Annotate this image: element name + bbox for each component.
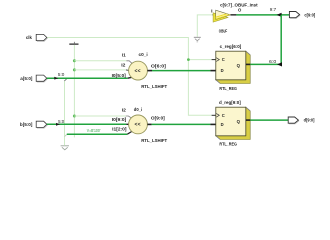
svg-text:6:0: 6:0 <box>269 59 277 64</box>
shifter c0_i body <box>129 61 148 80</box>
svg-text:c_reg[6:0]: c_reg[6:0] <box>220 44 242 50</box>
wire obuf input (gnd stub) <box>197 15 212 37</box>
pin stub d0_i I1 <box>127 132 131 135</box>
svg-text:c0_i: c0_i <box>139 52 148 58</box>
junction const / I1 c0_i <box>73 59 76 62</box>
wire bus vertical c <box>280 15 282 65</box>
register c_reg 3d side <box>216 51 250 83</box>
svg-text:I0[9:0]: I0[9:0] <box>112 117 127 122</box>
svg-text:I2: I2 <box>122 108 127 113</box>
pin stub c0_i I0 <box>128 76 132 79</box>
wire obuf O to junction <box>236 14 289 16</box>
svg-text:<<: << <box>134 68 140 74</box>
wire a bus <box>47 77 128 79</box>
wire d_reg Q stub <box>246 119 251 121</box>
svg-text:Q: Q <box>237 119 241 124</box>
register d_reg 3d side <box>216 107 250 139</box>
svg-text:c[9:0]: c[9:0] <box>304 13 315 18</box>
svg-text:5:0: 5:0 <box>58 119 65 124</box>
input port a[5:0] <box>37 79 48 82</box>
svg-text:Q: Q <box>237 63 241 68</box>
input port clk <box>37 38 48 41</box>
svg-text:d0_i: d0_i <box>134 107 142 113</box>
output port c[9:0] <box>290 15 300 18</box>
svg-text:d_reg[9:0]: d_reg[9:0] <box>219 100 241 106</box>
obuf hatch stripes <box>214 13 231 22</box>
register c_reg face <box>216 51 246 80</box>
svg-text:<<: << <box>134 122 140 128</box>
wire left const vertical <box>64 81 66 146</box>
wire b bus <box>47 123 127 125</box>
wire d0_i O to d_reg D <box>152 123 211 125</box>
pin stub c0_i I1 <box>126 61 133 65</box>
svg-text:9:7: 9:7 <box>270 7 277 12</box>
svg-text:RTL_REG: RTL_REG <box>219 142 237 148</box>
ground symbol near obuf <box>194 36 201 38</box>
svg-text:d[9:0]: d[9:0] <box>304 118 315 123</box>
svg-text:I0[5:0]: I0[5:0] <box>112 73 127 78</box>
svg-text:RTL_LSHIFT: RTL_LSHIFT <box>141 84 167 90</box>
wire c_reg Q to junction <box>250 63 281 65</box>
wire c0_i output stub <box>147 70 152 72</box>
svg-text:a[5:0]: a[5:0] <box>20 76 33 81</box>
register d_reg corner shadows <box>216 107 250 139</box>
breakout arrow b <box>56 123 60 126</box>
wire c0_i O to c_reg D <box>152 70 210 72</box>
svg-text:I1[2:0]: I1[2:0] <box>112 127 127 132</box>
pin stub c0_i I2 <box>126 69 129 72</box>
svg-text:I: I <box>211 8 212 13</box>
pin stub d_reg C <box>212 114 216 116</box>
pin stub c_reg C <box>212 59 216 61</box>
power bar symbol (const net) <box>73 42 75 44</box>
svg-text:b[5:0]: b[5:0] <box>20 122 33 127</box>
wire const vertical <box>73 45 75 137</box>
svg-text:RTL_REG: RTL_REG <box>219 86 237 92</box>
svg-text:c[9:7]_OBUF_inst: c[9:7]_OBUF_inst <box>220 2 258 8</box>
wire to shifter c0_i I1 <box>74 60 126 62</box>
wire clk net trunk <box>47 38 212 116</box>
junction const / I2 d0_i <box>73 115 76 118</box>
junction arrow corner <box>277 62 282 66</box>
input port b[5:0] <box>37 125 48 128</box>
svg-text:V=B'100': V=B'100' <box>87 128 101 133</box>
net tap tick on a wire <box>64 79 66 81</box>
obuf main triangle <box>216 10 231 19</box>
register c_reg corner shadows <box>216 51 250 83</box>
pin stub d0_i I2 <box>126 116 132 119</box>
wire c_reg Q stub <box>246 63 251 65</box>
pin stub c_reg D <box>210 70 216 72</box>
register d_reg face <box>216 107 246 136</box>
svg-text:clk: clk <box>26 35 32 40</box>
junction arrow top <box>277 13 282 17</box>
pin stub d0_i I0 <box>126 123 129 125</box>
svg-text:RTL_LSHIFT: RTL_LSHIFT <box>141 138 167 144</box>
wire clk branch to c_reg C <box>188 59 211 61</box>
svg-text:O[9:0]: O[9:0] <box>151 115 165 120</box>
svg-text:OBUF: OBUF <box>219 28 228 33</box>
wire obuf output stub <box>231 14 237 16</box>
wire constant B'100' to d0_i I1 <box>67 133 128 135</box>
svg-text:O[6:0]: O[6:0] <box>151 63 167 68</box>
ground symbol bottom <box>61 145 69 147</box>
breakout arrow a <box>54 77 58 80</box>
output port d[9:0] <box>289 121 299 124</box>
pin stub obuf I <box>213 14 216 16</box>
pin stub d_reg D <box>210 123 216 125</box>
clock triangle c_reg <box>216 58 219 62</box>
svg-text:I1: I1 <box>122 52 126 57</box>
wire d0_i output stub <box>147 123 151 125</box>
clock triangle d_reg <box>216 113 219 117</box>
wire to shifter c0_i I2 <box>74 69 126 71</box>
junction clk / c_reg C <box>187 58 190 61</box>
wire to shifter d0_i I2 <box>74 115 125 117</box>
svg-text:5:0: 5:0 <box>58 72 65 77</box>
junction const / I2 c0_i <box>73 68 76 71</box>
wire d_reg Q to port <box>250 119 288 121</box>
svg-text:I2: I2 <box>121 63 126 68</box>
shifter d0_i body <box>129 115 148 134</box>
